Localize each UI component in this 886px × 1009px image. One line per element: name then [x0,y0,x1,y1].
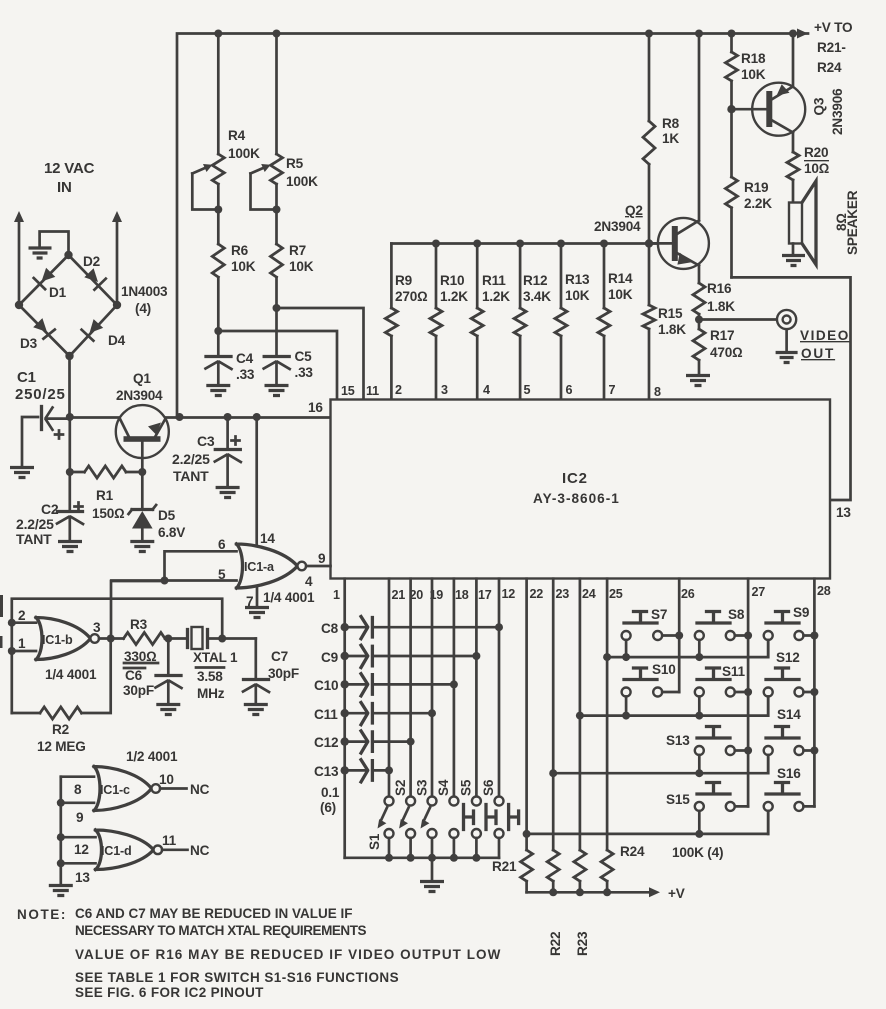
svg-text:5: 5 [524,383,531,397]
svg-text:R6: R6 [231,243,249,258]
svg-text:2: 2 [395,383,402,397]
svg-text:28: 28 [817,584,831,598]
svg-text:D4: D4 [108,333,126,348]
wire IC1-a pin 7 to ground [246,588,257,609]
junction rail Q2 collector [695,30,703,38]
wire IC1-a input 5 [111,567,236,585]
svg-text:C9: C9 [321,650,339,665]
svg-text:R13: R13 [565,272,590,287]
resistor R13 [555,240,590,400]
svg-text:S7: S7 [651,607,667,622]
wire R6 junction to IC2 pin 15 [214,327,337,399]
svg-text:R24: R24 [620,844,645,859]
svg-text:9: 9 [76,810,84,825]
potentiometer R4 [192,34,260,214]
ground switch bus [420,882,444,892]
svg-text:S13: S13 [666,733,690,748]
svg-text:10K: 10K [231,259,256,274]
svg-text:IC1-c: IC1-c [100,783,130,797]
IC U2 AY-3-8606-1 [331,400,831,579]
svg-text:S15: S15 [666,792,690,807]
svg-text:S1: S1 [367,833,382,850]
resistor R1 [70,466,143,521]
junction rail Q3 emitter [789,30,797,38]
resistor R16 [693,281,735,320]
svg-text:21: 21 [392,588,406,602]
node 0.1 (6) label [320,785,340,815]
svg-text:Q3: Q3 [812,97,827,115]
switch S11 [695,664,748,716]
speaker SP1 [782,181,860,266]
svg-text:R18: R18 [741,51,766,66]
wire IC2 pin 21 column [385,579,393,797]
svg-text:IC1-b: IC1-b [42,633,73,647]
svg-text:S16: S16 [777,766,801,781]
svg-text:S3: S3 [415,779,430,796]
svg-text:C8: C8 [321,621,339,636]
svg-text:10K: 10K [565,288,590,303]
ground C3 [216,488,240,498]
switch S14 [764,707,815,773]
svg-text:8: 8 [654,385,661,399]
svg-text:10: 10 [159,772,174,787]
svg-text:30pF: 30pF [123,683,154,698]
wire C1 left to ground [22,417,38,466]
ground IC1-a [245,608,269,618]
svg-text:D2: D2 [83,254,101,269]
resistor R7 [271,210,314,309]
svg-text:R2: R2 [52,722,70,737]
svg-text:27: 27 [752,585,766,599]
svg-text:R16: R16 [707,281,732,296]
switch S2 [393,779,415,858]
svg-text:TANT: TANT [16,531,52,547]
switch S3 [415,779,437,858]
svg-text:1N4003: 1N4003 [121,284,168,299]
wire row2 bus [580,697,768,720]
capacitor C2 [16,472,83,547]
wire IC1-c input 8 [61,777,94,797]
svg-text:0.1: 0.1 [321,785,340,800]
svg-text:C6: C6 [125,668,143,683]
resistor R20 [787,145,830,202]
switch S12 [764,650,815,716]
capacitor C4 [206,331,255,384]
resistor R19 [726,109,773,277]
ground C7 [244,705,268,715]
capacitor C3 [172,417,241,486]
resistor R8 [643,34,680,244]
svg-text:VIDEO: VIDEO [800,328,850,343]
capacitor C6 [123,635,182,704]
wire IC2 pin 27 column [744,579,752,807]
capacitor C9 [321,645,476,667]
svg-text:.33: .33 [295,365,314,380]
svg-text:S11: S11 [722,664,745,679]
ground D5 [130,542,154,552]
svg-text:C10: C10 [314,678,338,693]
svg-text:(4): (4) [135,301,151,316]
ground R17 [686,376,710,386]
svg-text:1/2 4001: 1/2 4001 [126,749,178,764]
junction IC1 pin14 node [253,413,261,421]
svg-text:C7: C7 [271,649,288,664]
ground C2 [58,542,82,552]
connector VIDEO OUT jack [776,310,798,363]
svg-text:100K (4): 100K (4) [672,845,723,860]
wire R7 junction to IC2 pin 11 [273,304,364,399]
svg-text:SEE TABLE 1 FOR SWITCH S1-S16: SEE TABLE 1 FOR SWITCH S1-S16 FUNCTIONS [75,970,399,985]
svg-text:2.2/25: 2.2/25 [16,516,54,532]
svg-text:R11: R11 [482,273,506,288]
svg-text:22: 22 [530,587,544,601]
capacitor C12 [314,731,411,753]
resistor R3 [124,617,188,668]
capacitor C11 [314,703,432,725]
wire node A to IC1-a inputs [111,581,165,639]
svg-text:11: 11 [162,833,177,848]
switch S8 [695,607,748,657]
wire IC1-a pin 14 [257,417,276,546]
switch S6 [481,779,519,858]
capacitor C10 [314,674,454,696]
junction rail R5 [273,30,281,38]
ground C5 [265,386,289,396]
switch S1 [367,797,394,858]
svg-text:AY-3-8606-1: AY-3-8606-1 [533,491,620,506]
svg-text:R12: R12 [523,273,548,288]
ground C1 [10,468,34,478]
svg-text:C2: C2 [41,501,59,517]
wire IC1-a input 6 [165,537,237,581]
wire AC input right arrow [112,211,122,305]
svg-text:2N3904: 2N3904 [594,219,641,234]
wire gate inputs common to ground [59,777,62,884]
svg-text:R7: R7 [289,243,306,258]
svg-text:12: 12 [502,587,516,601]
svg-text:R19: R19 [744,180,769,195]
wire switch common bus [345,854,499,862]
svg-text:1.2K: 1.2K [440,289,468,304]
resistor R2 [12,639,111,755]
svg-text:150Ω: 150Ω [92,506,125,521]
svg-text:1.8K: 1.8K [658,322,686,337]
svg-text:R23: R23 [575,931,590,956]
svg-text:NOTE:: NOTE: [17,907,67,922]
wire node B to IC1-b inputs [12,599,222,713]
svg-text:D5: D5 [158,508,176,523]
potentiometer R5 [251,34,319,214]
svg-text:10K: 10K [289,259,314,274]
svg-text:NC: NC [190,843,210,858]
wire +V bottom bus [527,886,685,901]
svg-text:15: 15 [341,384,355,398]
svg-text:C12: C12 [314,735,339,750]
svg-text:R21-: R21- [817,40,846,55]
resistor R12 [514,240,551,400]
svg-text:18: 18 [455,588,469,602]
capacitor C5 [264,308,314,384]
svg-text:5: 5 [218,567,226,582]
wire row4 bus [527,811,769,838]
resistor R23 [574,850,590,956]
wire IC1-d input 12 [57,833,96,857]
svg-text:R4: R4 [228,128,246,143]
switch S7 [622,607,680,657]
svg-text:S2: S2 [393,779,408,796]
wire Q2 base bus [391,242,672,245]
junction C3 node [224,413,232,421]
switch S10 [622,662,680,716]
svg-text:SPEAKER: SPEAKER [845,190,860,255]
svg-text:S6: S6 [481,779,496,796]
resistor R17 [693,320,743,375]
wire video node [699,318,777,321]
svg-text:S10: S10 [652,662,676,677]
wire IC2 pin 19 column [428,579,436,797]
switch S16 [764,766,815,834]
svg-text:11: 11 [366,384,379,398]
svg-text:R5: R5 [286,156,304,171]
svg-text:IN: IN [57,179,72,196]
svg-text:XTAL 1: XTAL 1 [193,650,238,665]
transistor Q3 [732,34,846,153]
svg-text:NECESSARY TO MATCH XTAL REQUIR: NECESSARY TO MATCH XTAL REQUIREMENTS [75,923,367,938]
svg-text:13: 13 [75,870,90,885]
node NOTE text block [17,906,501,1000]
resistor R6 [212,210,255,332]
diode D2 [83,254,106,290]
svg-text:100K: 100K [228,146,260,161]
junction bridge left [15,301,23,309]
wire IC2 pin 20 column [407,579,415,797]
wire bus to ground [431,858,434,880]
svg-text:+V TO: +V TO [814,20,852,35]
junction regulated rail left [176,413,184,421]
svg-text:2.2/25: 2.2/25 [172,451,210,467]
wire IC1-a output pin 9 to IC2 pin 4 [305,551,331,589]
svg-text:7: 7 [609,383,616,397]
svg-text:Q2: Q2 [625,203,643,218]
svg-text:.33: .33 [236,367,255,382]
resistor R14 [598,240,633,400]
junction R18 R19 Q3 base [727,105,735,113]
svg-text:(6): (6) [320,800,336,815]
wire IC2 pin 17 column [472,579,480,797]
junction bridge bottom [65,352,73,360]
svg-text:13: 13 [836,505,851,520]
svg-text:2N3904: 2N3904 [116,388,163,403]
svg-text:10K: 10K [608,287,633,302]
capacitor C1 [15,369,70,439]
ground IC1 inputs [49,886,73,896]
junction bridge top [64,251,72,259]
wire bridge bottom to C1 node [68,356,71,417]
svg-text:25: 25 [609,587,623,601]
svg-text:6.8V: 6.8V [158,525,185,540]
svg-text:R14: R14 [608,271,633,286]
svg-text:9: 9 [318,551,326,566]
wire IC2 pin 25 column [603,579,611,850]
svg-text:23: 23 [556,587,570,601]
svg-text:R8: R8 [662,116,680,131]
switch S15 [666,783,748,834]
svg-text:IC1-d: IC1-d [101,844,132,858]
diode bridge frame [19,255,117,356]
junction C1 node [66,413,74,421]
scan artifact marks [0,595,3,648]
wire IC1-b output node A [93,620,124,643]
svg-text:12 MEG: 12 MEG [37,739,86,754]
svg-text:R1: R1 [96,488,114,503]
svg-text:100K: 100K [286,174,318,189]
resistor R9 [385,244,428,400]
svg-text:SEE FIG. 6 FOR IC2 PINOUT: SEE FIG. 6 FOR IC2 PINOUT [75,985,264,1000]
capacitor C13 [314,760,389,782]
junction rail R18 [728,30,736,38]
svg-text:470Ω: 470Ω [710,345,743,360]
node 12 VAC IN label [44,160,95,196]
svg-text:12: 12 [74,842,89,857]
svg-text:10Ω: 10Ω [804,161,830,176]
wire IC2 pin 23 column [549,579,557,850]
svg-text:12 VAC: 12 VAC [44,160,95,177]
resistor R22 [547,850,563,956]
zener diode D5 [129,472,186,540]
svg-text:10K: 10K [741,67,766,82]
svg-text:1/4 4001: 1/4 4001 [45,667,97,682]
junction R1 D5 node [138,468,146,476]
gate IC1-b [36,618,99,660]
svg-text:3.58: 3.58 [197,669,223,684]
wire C1 node down to C2/R1 node [68,417,71,472]
junction rail R4 [214,30,222,38]
wire IC2 pin 22 column [523,579,531,850]
svg-text:270Ω: 270Ω [395,289,428,304]
svg-text:8: 8 [74,782,82,797]
svg-text:250/25: 250/25 [15,386,66,403]
svg-text:14: 14 [260,531,275,546]
svg-text:C4: C4 [236,351,254,366]
svg-text:6: 6 [218,537,226,552]
wire IC2 pin 12 column [495,579,503,797]
ground C4 [206,386,230,396]
svg-text:3: 3 [441,383,448,397]
svg-text:C1: C1 [17,369,36,386]
svg-text:1.2K: 1.2K [482,289,510,304]
svg-text:30pF: 30pF [268,666,299,681]
svg-text:IC1-a: IC1-a [244,560,275,574]
svg-text:C3: C3 [197,433,215,449]
wire bridge top to ground [40,232,69,256]
svg-text:IC2: IC2 [562,470,588,487]
svg-text:R17: R17 [710,328,734,343]
svg-text:NC: NC [190,782,210,797]
wire IC1-c output NC [159,772,210,797]
svg-text:2.2K: 2.2K [744,196,772,211]
ground bridge top [29,248,52,258]
resistor R15 [643,244,686,400]
wire IC1-c input 9 [57,799,94,825]
junction R16 R17 video [695,316,703,324]
transistor Q1 [70,371,177,472]
svg-text:6: 6 [566,383,573,397]
svg-text:17: 17 [478,588,492,602]
wire R19 to IC2 pin 13 [732,277,851,500]
wire IC1-d output NC [162,833,210,858]
svg-text:S4: S4 [436,779,451,796]
svg-text:C5: C5 [295,349,313,364]
svg-text:C6 AND C7 MAY BE REDUCED IN VA: C6 AND C7 MAY BE REDUCED IN VALUE IF [75,906,353,921]
svg-text:R20: R20 [804,145,828,160]
resistor R11 [471,240,510,400]
wire AC input left arrow [14,211,24,305]
capacitor C8 [321,617,499,639]
svg-text:VALUE OF R16 MAY BE REDUCED IF: VALUE OF R16 MAY BE REDUCED IF VIDEO OUT… [75,947,501,962]
svg-text:TANT: TANT [173,468,209,484]
svg-text:2: 2 [18,608,26,623]
junction node B [218,635,226,643]
wire IC2 pin 1 column [343,579,346,858]
node 1N4003 (4) label [121,284,168,316]
gate IC1-a [237,544,307,588]
svg-text:R22: R22 [548,931,563,956]
svg-text:R21: R21 [492,859,517,874]
wire IC2 pin 24 column [576,579,584,850]
wire row1 bus [607,640,768,661]
switch S4 [436,779,474,858]
resistor R21 [492,850,533,892]
ground C6 [156,705,180,715]
gate IC1-c [94,767,160,811]
svg-text:3.4K: 3.4K [523,289,551,304]
crystal XTAL1 [188,627,256,701]
diode D1 [34,268,67,300]
junction bridge right [113,301,121,309]
wire IC2 pin 26 column [675,579,683,692]
svg-text:MHz: MHz [197,686,225,701]
svg-text:C13: C13 [314,764,339,779]
junction R8 R15 Q2 base [645,239,653,247]
wire IC2 pin 28 column [810,579,818,807]
svg-text:C11: C11 [314,707,338,722]
svg-text:24: 24 [582,587,596,601]
transistor Q2 [594,34,709,284]
node +V TO R21-R24 label [814,20,852,75]
capacitor C7 [243,639,299,704]
svg-text:4: 4 [483,383,490,397]
svg-text:D3: D3 [20,336,38,351]
svg-text:1K: 1K [662,131,679,146]
switch S5 [459,779,497,858]
svg-text:S8: S8 [728,607,745,622]
wire IC2 pin 18 column [450,579,458,797]
svg-text:R9: R9 [395,273,413,288]
svg-text:R3: R3 [130,617,148,632]
node bottom pin labels [333,584,831,602]
svg-text:Q1: Q1 [133,371,151,386]
svg-text:1.8K: 1.8K [707,299,735,314]
svg-text:16: 16 [308,400,323,415]
diode D3 [20,318,55,351]
svg-text:2N3906: 2N3906 [830,88,845,135]
wire +V top rail [177,29,808,418]
gate IC1-d [96,830,163,870]
wire IC1-b input 2 [8,608,36,627]
svg-text:S12: S12 [776,650,800,665]
svg-text:OUT: OUT [801,346,835,361]
wire regulated rail to IC2 pin 16 [177,416,331,419]
